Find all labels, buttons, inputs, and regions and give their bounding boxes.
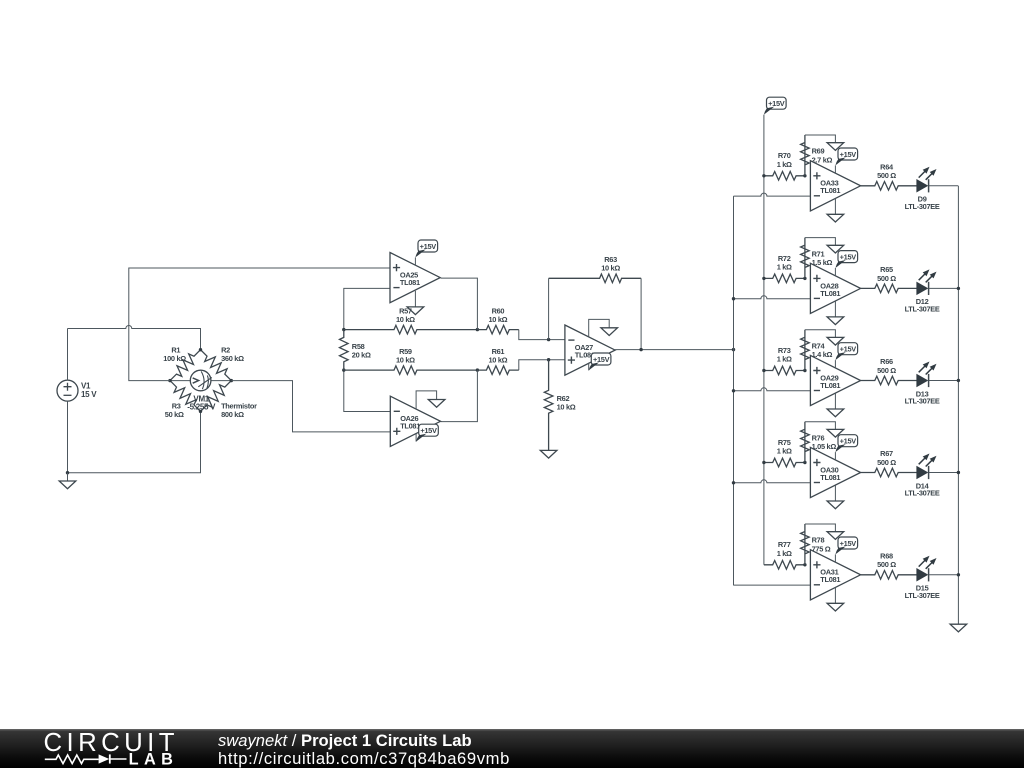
wire OA26 V- pin dogleg — [416, 391, 437, 409]
ground at LED bus — [950, 624, 967, 632]
junction V1 ground node — [66, 471, 69, 474]
ground at OA27 V- — [601, 328, 618, 336]
svg-text:10 kΩ: 10 kΩ — [557, 403, 576, 412]
svg-text:500 Ω: 500 Ω — [877, 171, 896, 180]
svg-text:TL081: TL081 — [400, 422, 420, 431]
junction bridge top node — [199, 348, 202, 351]
junction LED bus at D13 — [957, 379, 960, 382]
wire V1 top to bridge top node — [67, 329, 69, 381]
resistor R61 10k — [477, 347, 518, 375]
resistor R78 775 ohm — [801, 524, 831, 565]
wire R69 top dogleg to ground — [805, 135, 836, 143]
svg-text:LAB: LAB — [129, 751, 179, 768]
junction bridge left node — [168, 379, 171, 382]
wire bridge left to OA25 + input — [129, 268, 390, 381]
wire - input OA28 from signal bus — [734, 296, 811, 299]
voltmeter VM1 — [187, 370, 216, 411]
junction OA27 - feedback node — [547, 338, 550, 341]
svg-text:R69: R69 — [812, 147, 825, 156]
op-amp OA25 TL081 — [390, 253, 440, 303]
ground at OA31 V- — [827, 603, 844, 611]
wire R71 top dogleg to ground — [805, 238, 836, 246]
svg-text:+15V: +15V — [420, 242, 437, 251]
resistor R68 500 — [861, 552, 917, 580]
LED D13 LTL-307EE — [905, 362, 940, 406]
wire OA27 V- pin dogleg — [589, 319, 610, 336]
junction signal bus at OA28 — [732, 297, 735, 300]
+15V flag at OA30 — [835, 435, 857, 452]
wire V1 top horizontal with hop — [68, 326, 201, 350]
footer title — [218, 732, 510, 767]
ground at OA26 V- — [428, 400, 445, 408]
svg-text:1 kΩ: 1 kΩ — [777, 160, 792, 169]
wire right LED bus — [957, 186, 959, 624]
resistor R1 100k bridge top-left — [163, 345, 200, 380]
svg-text:R74: R74 — [812, 341, 826, 350]
svg-text:10 kΩ: 10 kΩ — [601, 264, 620, 273]
svg-text:20 kΩ: 20 kΩ — [352, 351, 371, 360]
voltage source V1 — [57, 380, 97, 401]
svg-text:R76: R76 — [812, 433, 825, 442]
+15V flag at OA31 — [835, 537, 857, 554]
junction rail at R70 — [762, 174, 765, 177]
svg-text:LTL-307EE: LTL-307EE — [905, 397, 940, 406]
wire ground stub — [67, 473, 69, 481]
resistor R58 20k — [340, 330, 371, 371]
thermistor 800k bridge bottom-right — [201, 381, 258, 419]
svg-text:1 kΩ: 1 kΩ — [777, 447, 792, 456]
resistor R3 50k bridge bottom-left — [165, 381, 201, 419]
svg-text:R66: R66 — [880, 357, 893, 366]
svg-text:1 kΩ: 1 kΩ — [777, 263, 792, 272]
wire - input OA31 from signal bus — [734, 584, 811, 586]
wire OA33 V+ pin stub — [834, 165, 836, 173]
junction + input node OA28 — [803, 277, 806, 280]
wire - input OA33 from signal bus — [734, 193, 811, 196]
+15V flag at OA27 — [589, 353, 611, 370]
wire feedback up — [548, 278, 550, 339]
svg-text:R60: R60 — [492, 306, 505, 315]
resistor R73 1k — [764, 346, 805, 375]
wire OA25 V+ pin stub — [414, 257, 416, 265]
wire OA29 V+ pin stub — [834, 360, 836, 368]
wire R61 to OA27 + input — [519, 360, 565, 370]
svg-text:R64: R64 — [880, 163, 894, 172]
ground at R78 — [827, 532, 844, 540]
junction R57-R58 node — [342, 328, 345, 331]
resistor R76 1.05 kohm — [801, 422, 837, 463]
svg-text:R63: R63 — [604, 255, 617, 264]
svg-text:+15V: +15V — [593, 355, 610, 364]
svg-text:LTL-307EE: LTL-307EE — [905, 489, 940, 498]
svg-text:+15V: +15V — [840, 437, 857, 446]
resistor R62 10k to ground — [544, 360, 575, 451]
op-amp OA27 TL081 — [565, 325, 615, 375]
junction + input node OA31 — [803, 563, 806, 566]
wire OA26 - input feedback — [344, 370, 391, 411]
junction signal bus input node — [732, 348, 735, 351]
junction signal bus at OA29 — [732, 389, 735, 392]
comparator op-amp OA30 TL081 — [810, 447, 860, 497]
junction rail at R75 — [762, 461, 765, 464]
wire R76 top dogleg to ground — [805, 422, 836, 430]
svg-text:R59: R59 — [399, 347, 412, 356]
comparator op-amp OA33 TL081 — [810, 161, 860, 211]
wire signal bus — [733, 196, 735, 585]
svg-text:R70: R70 — [778, 151, 791, 160]
svg-text:LTL-307EE: LTL-307EE — [905, 305, 940, 314]
svg-text:V1: V1 — [81, 382, 91, 391]
resistor R63 10k feedback — [549, 255, 642, 283]
wire OA30 V- pin stub — [834, 485, 836, 501]
+15V flag at OA26 — [416, 424, 438, 441]
svg-text:+15V: +15V — [840, 345, 857, 354]
resistor R74 1.4 kohm — [801, 330, 833, 371]
junction + input node OA33 — [803, 174, 806, 177]
svg-text:10 kΩ: 10 kΩ — [488, 315, 507, 324]
resistor R71 1.5 kohm — [801, 238, 833, 279]
comparator op-amp OA31 TL081 — [810, 550, 860, 600]
junction rail at R72 — [762, 277, 765, 280]
junction OA26 output node — [476, 368, 479, 371]
junction R58-R59 node — [342, 368, 345, 371]
ground at R76 — [827, 429, 844, 437]
svg-text:R78: R78 — [812, 536, 825, 545]
svg-text:R62: R62 — [557, 394, 570, 403]
resistor R65 500 — [861, 265, 917, 293]
svg-text:500 Ω: 500 Ω — [877, 366, 896, 375]
svg-text:R58: R58 — [352, 342, 365, 351]
svg-text:R72: R72 — [778, 254, 791, 263]
junction bridge bottom node — [199, 410, 202, 413]
svg-text:R75: R75 — [778, 438, 791, 447]
wire OA27 output to comparator bus — [615, 349, 734, 351]
resistor R59 10k — [344, 347, 478, 375]
wire D12 cathode to LED bus — [929, 287, 959, 289]
comparator op-amp OA29 TL081 — [810, 355, 860, 405]
ground at OA25 V- — [407, 307, 424, 315]
wire D15 cathode to LED bus — [929, 574, 959, 576]
svg-text:R67: R67 — [880, 449, 893, 458]
svg-text:500 Ω: 500 Ω — [877, 458, 896, 467]
svg-text:TL081: TL081 — [820, 473, 840, 482]
wire OA33 V- pin stub — [834, 199, 836, 215]
wire V1 bottom — [67, 401, 69, 473]
svg-text:+15V: +15V — [420, 426, 437, 435]
wire OA27 V+ pin stub — [588, 363, 590, 371]
svg-text:1 kΩ: 1 kΩ — [777, 355, 792, 364]
+15V flag at OA29 — [835, 343, 857, 360]
wire OA31 V+ pin stub — [834, 554, 836, 562]
ground at OA28 V- — [827, 317, 844, 325]
+15V flag at OA25 — [415, 240, 437, 257]
svg-text:+15V: +15V — [840, 539, 857, 548]
resistor R67 500 — [861, 449, 917, 477]
ground at R62 — [540, 450, 557, 458]
wire OA28 V+ pin stub — [834, 268, 836, 276]
svg-text:100 kΩ: 100 kΩ — [163, 354, 186, 363]
junction + input node OA29 — [803, 369, 806, 372]
resistor R70 1k — [764, 151, 805, 180]
resistor R64 500 — [861, 163, 917, 191]
wire OA30 V+ pin stub — [834, 452, 836, 460]
wire ground bus bottom — [68, 411, 201, 472]
junction OA27 + R62 node — [547, 358, 550, 361]
svg-text:LTL-307EE: LTL-307EE — [905, 202, 940, 211]
wire R74 top dogleg to ground — [805, 330, 836, 338]
ground at R69 — [827, 143, 844, 151]
svg-text:10 kΩ: 10 kΩ — [396, 356, 415, 365]
resistor R77 1k — [764, 540, 805, 569]
svg-text:TL081: TL081 — [820, 381, 840, 390]
wire bridge right to OA26 + input — [231, 381, 390, 432]
comparator op-amp OA28 TL081 — [810, 263, 860, 313]
ground at R71 — [827, 245, 844, 253]
junction R63 output node — [639, 348, 642, 351]
wire OA26 output — [440, 370, 477, 422]
+15V supply flag top right — [764, 97, 786, 114]
svg-text:R61: R61 — [492, 347, 505, 356]
svg-text:R68: R68 — [880, 552, 893, 561]
svg-text:TL081: TL081 — [820, 575, 840, 584]
svg-text:500 Ω: 500 Ω — [877, 560, 896, 569]
resistor R72 1k — [764, 254, 805, 283]
wire - input OA30 from signal bus — [734, 480, 811, 483]
wire - input OA29 from signal bus — [734, 388, 811, 391]
wire OA29 V- pin stub — [834, 393, 836, 409]
wire R78 top dogleg to ground — [805, 524, 836, 532]
resistor R66 500 — [861, 357, 917, 385]
svg-text:1 kΩ: 1 kΩ — [777, 549, 792, 558]
svg-text:10 kΩ: 10 kΩ — [488, 356, 507, 365]
svg-text:TL081: TL081 — [820, 289, 840, 298]
wire D14 cathode to LED bus — [929, 472, 959, 474]
resistor R69 2.7 kohm — [801, 135, 833, 176]
wire feedback down to output — [640, 278, 642, 349]
junction signal bus at OA30 — [732, 481, 735, 484]
LED D14 LTL-307EE — [905, 454, 940, 498]
wire OA31 V- pin stub — [834, 588, 836, 604]
wire OA25 - input feedback — [344, 288, 390, 329]
svg-text:TL081: TL081 — [820, 186, 840, 195]
resistor R75 1k — [764, 438, 805, 467]
junction bridge right node — [230, 379, 233, 382]
svg-text:+15V: +15V — [840, 150, 857, 159]
resistor R2 360k bridge top-right — [201, 345, 245, 380]
svg-text:15 V: 15 V — [81, 390, 97, 399]
LED D15 LTL-307EE — [905, 556, 940, 600]
ground at OA30 V- — [827, 501, 844, 509]
LED D9 LTL-307EE — [905, 167, 940, 211]
ground at OA29 V- — [827, 409, 844, 417]
op-amp OA26 TL081 — [390, 396, 440, 446]
svg-text:500 Ω: 500 Ω — [877, 274, 896, 283]
junction + input node OA30 — [803, 461, 806, 464]
junction LED bus at D15 — [957, 573, 960, 576]
svg-text:360 kΩ: 360 kΩ — [221, 354, 244, 363]
svg-text:R57: R57 — [399, 306, 412, 315]
wire OA25 V- pin stub — [414, 291, 416, 307]
wire bridge middle horizontal — [170, 380, 231, 382]
svg-text:R77: R77 — [778, 540, 791, 549]
ground at R74 — [827, 337, 844, 345]
wire OA26 V+ pin stub — [415, 434, 417, 442]
svg-text:R65: R65 — [880, 265, 893, 274]
svg-text:R71: R71 — [812, 249, 825, 258]
junction LED bus at D12 — [957, 287, 960, 290]
svg-text:50 kΩ: 50 kΩ — [165, 410, 184, 419]
wire D9 cathode to LED bus — [929, 185, 959, 187]
wire OA25 output — [441, 278, 478, 330]
junction rail at R73 — [762, 369, 765, 372]
junction OA25 output node — [476, 328, 479, 331]
wire D13 cathode to LED bus — [929, 380, 959, 382]
wire OA28 V- pin stub — [834, 301, 836, 317]
svg-text:+15V: +15V — [840, 252, 857, 261]
CircuitLab logo — [0, 729, 220, 768]
svg-text:LTL-307EE: LTL-307EE — [905, 591, 940, 600]
resistor R60 10k — [477, 306, 518, 334]
svg-text:TL081: TL081 — [400, 278, 420, 287]
+15V flag at OA28 — [835, 251, 857, 268]
svg-text:+15V: +15V — [768, 99, 785, 108]
wire +15V rail — [763, 115, 765, 565]
junction LED bus at D14 — [957, 471, 960, 474]
svg-text:R73: R73 — [778, 346, 791, 355]
+15V flag at OA33 — [835, 148, 857, 165]
resistor R57 10k — [344, 306, 478, 334]
ground at V1 — [59, 481, 76, 489]
ground at OA33 V- — [827, 214, 844, 222]
svg-text:10 kΩ: 10 kΩ — [396, 315, 415, 324]
svg-text:800 kΩ: 800 kΩ — [221, 410, 244, 419]
LED D12 LTL-307EE — [905, 269, 940, 313]
wire R60 to OA27 - input — [519, 330, 565, 340]
